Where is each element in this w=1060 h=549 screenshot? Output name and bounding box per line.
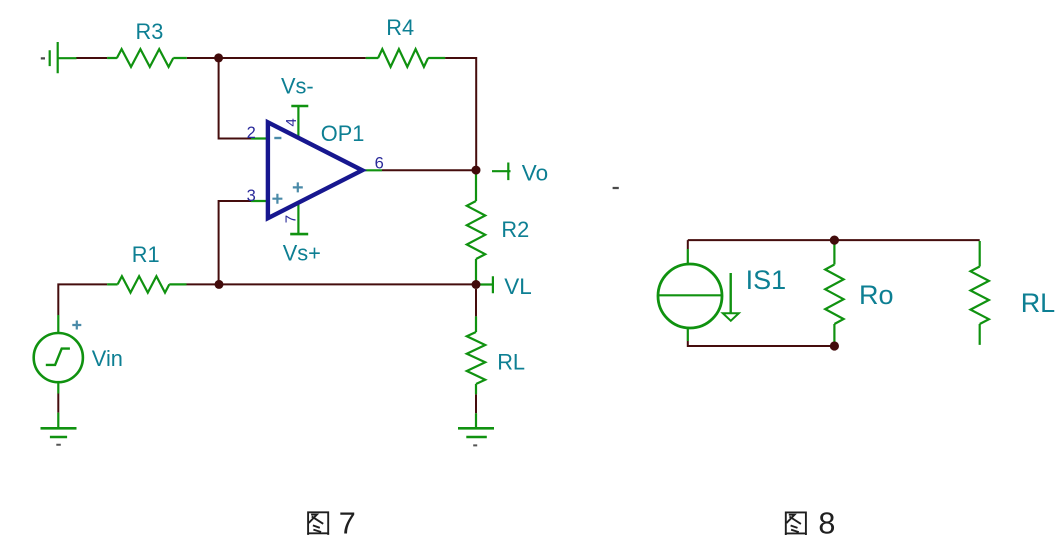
svg-text:2: 2 <box>247 124 256 142</box>
svg-text:R4: R4 <box>386 15 414 40</box>
svg-text:RL: RL <box>1021 288 1056 318</box>
svg-text:R3: R3 <box>136 19 164 44</box>
svg-text:OP1: OP1 <box>321 121 365 146</box>
svg-text:7: 7 <box>282 215 299 223</box>
svg-text:Vs+: Vs+ <box>283 240 321 265</box>
svg-text:Vo: Vo <box>522 161 548 186</box>
svg-text:4: 4 <box>283 118 300 126</box>
svg-text:R2: R2 <box>501 217 529 242</box>
svg-text:3: 3 <box>247 187 256 205</box>
svg-text:RL: RL <box>497 350 525 375</box>
svg-text:6: 6 <box>375 155 384 173</box>
svg-text:VL: VL <box>504 274 532 299</box>
svg-text:R1: R1 <box>132 242 160 267</box>
svg-text:IS1: IS1 <box>746 265 787 295</box>
svg-text:Vin: Vin <box>92 346 123 371</box>
svg-text:Vs-: Vs- <box>281 73 314 98</box>
svg-text:Ro: Ro <box>859 280 894 310</box>
svg-text:8: 8 <box>818 507 835 541</box>
svg-text:7: 7 <box>339 507 356 541</box>
